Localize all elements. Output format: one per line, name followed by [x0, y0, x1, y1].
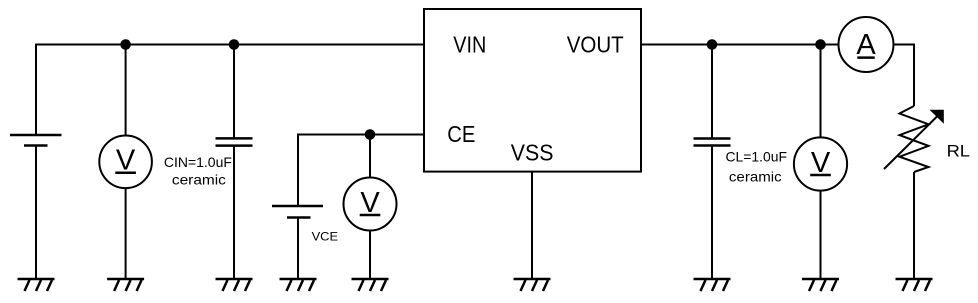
- wire capacitor CL to ground: [711, 146, 713, 280]
- op-amp U1 regulator IC body: [424, 9, 641, 172]
- ground under RL: [896, 279, 933, 291]
- battery VCE: [272, 206, 323, 218]
- ground under voltmeter V3: [802, 279, 839, 291]
- ground under voltmeter V1: [107, 279, 144, 291]
- svg-text:VOUT: VOUT: [567, 32, 624, 58]
- arrow of variable resistor RL: [884, 110, 944, 169]
- wire ammeter to RL: [894, 45, 915, 107]
- label CL value: [726, 149, 788, 185]
- wire CE rail: [298, 135, 424, 207]
- wire battery VCE to ground: [297, 218, 299, 280]
- ground under battery B1: [18, 279, 55, 291]
- voltmeter V1 input: [99, 136, 152, 189]
- svg-text:VCE: VCE: [312, 229, 339, 243]
- wire VOUT rail: [641, 44, 839, 46]
- ground under battery VCE: [280, 279, 317, 291]
- battery B1 input supply: [10, 135, 62, 146]
- svg-text:VIN: VIN: [453, 32, 486, 58]
- node junction dot CL: [707, 39, 718, 50]
- wire top input rail: [36, 45, 424, 136]
- svg-text:RL: RL: [947, 142, 970, 161]
- voltmeter V3 output: [794, 137, 847, 190]
- wire voltmeter V1 to ground: [125, 188, 127, 279]
- wire VSS to ground: [531, 172, 533, 279]
- ground under voltmeter V2: [352, 279, 389, 291]
- resistor RL variable: [900, 106, 929, 172]
- node junction dot CIN: [229, 39, 240, 50]
- wire CE node to voltmeter V2: [369, 135, 371, 178]
- wire voltmeter V3 to ground: [820, 191, 822, 279]
- wire rail to voltmeter V3: [820, 45, 822, 138]
- node junction dot output V: [815, 39, 826, 50]
- svg-text:CE: CE: [447, 121, 475, 147]
- ground under VSS: [514, 279, 551, 291]
- ground under capacitor CL: [694, 279, 731, 291]
- wire RL to ground: [913, 172, 915, 279]
- wire rail to capacitor CL: [711, 45, 713, 139]
- node junction dot CE voltmeter: [365, 129, 376, 140]
- svg-text:CL=1.0uF: CL=1.0uF: [726, 149, 788, 165]
- wire capacitor CIN to ground: [233, 146, 235, 279]
- label CIN value: [164, 154, 232, 188]
- capacitor CIN: [216, 138, 253, 145]
- wire rail to voltmeter V1: [125, 45, 127, 136]
- voltmeter V2 CE: [344, 178, 397, 231]
- svg-text:CIN=1.0uF: CIN=1.0uF: [164, 154, 232, 170]
- node junction dot input V: [120, 39, 131, 50]
- svg-text:ceramic: ceramic: [729, 169, 782, 185]
- wire voltmeter V2 to ground: [369, 231, 371, 280]
- ground under capacitor CIN: [216, 279, 253, 291]
- wire rail to capacitor CIN: [233, 45, 235, 139]
- svg-text:VSS: VSS: [511, 139, 554, 165]
- ammeter A1: [839, 17, 894, 72]
- svg-text:ceramic: ceramic: [172, 172, 226, 188]
- wire battery B1 to ground: [35, 146, 37, 280]
- capacitor CL: [694, 139, 731, 146]
